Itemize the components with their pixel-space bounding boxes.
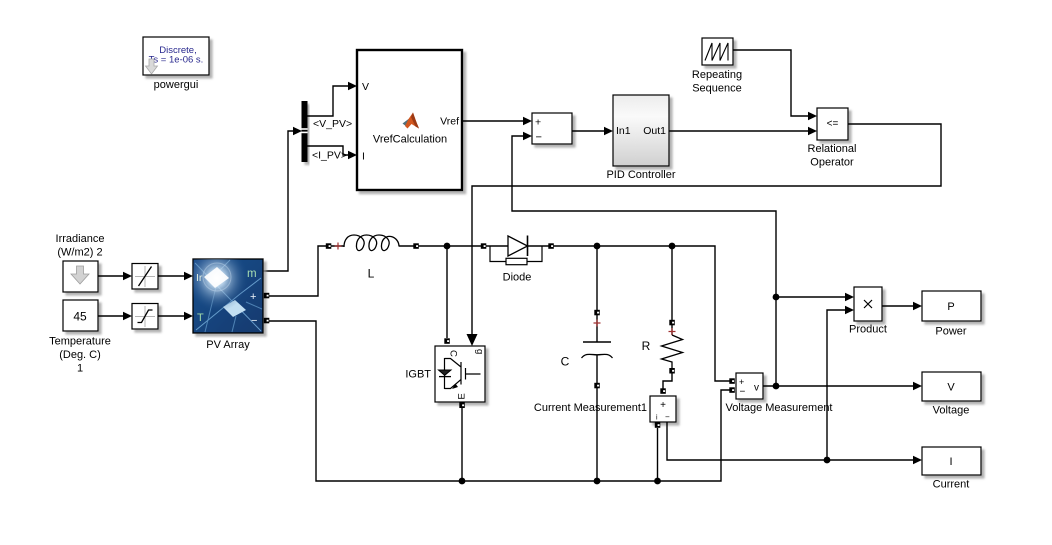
svg-text:(W/m2) 2: (W/m2) 2 bbox=[57, 247, 102, 259]
wire bus to I port, signal I_PV bbox=[308, 146, 349, 155]
wire Sum to PID bbox=[572, 130, 604, 132]
port IGBT C bbox=[444, 338, 450, 344]
svg-text:v: v bbox=[754, 383, 759, 394]
port diode cathode bbox=[548, 243, 554, 249]
port VM + bbox=[729, 378, 735, 384]
svg-text:45: 45 bbox=[73, 310, 87, 324]
svg-text:+: + bbox=[535, 117, 541, 129]
svg-text:PV Array: PV Array bbox=[206, 339, 250, 351]
port C top bbox=[594, 310, 600, 316]
port CM1 + bbox=[660, 388, 666, 394]
powergui block bbox=[143, 37, 209, 75]
svg-text:1: 1 bbox=[77, 363, 83, 375]
svg-text:Ts = 1e-06 s.: Ts = 1e-06 s. bbox=[149, 55, 204, 66]
svg-text:In1: In1 bbox=[616, 125, 631, 137]
svg-text:P: P bbox=[947, 301, 954, 313]
node junction rail-CM1 bbox=[654, 478, 661, 485]
wire irradiance to rate limiter bbox=[98, 275, 123, 277]
svg-text:Relational: Relational bbox=[808, 143, 857, 155]
port PV - bbox=[264, 318, 270, 324]
node junction rail-C bbox=[594, 478, 601, 485]
svg-text:Voltage Measurement: Voltage Measurement bbox=[725, 402, 832, 414]
svg-text:g: g bbox=[474, 349, 485, 354]
wire PV m to Bus Selector bbox=[263, 131, 293, 271]
repeating sequence block bbox=[702, 38, 733, 65]
wire 45 to saturation bbox=[98, 315, 123, 317]
svg-text:+: + bbox=[660, 400, 666, 411]
svg-text:<=: <= bbox=[827, 119, 839, 130]
svg-text:Repeating: Repeating bbox=[692, 69, 742, 81]
constant block 45 bbox=[63, 300, 98, 331]
svg-text:L: L bbox=[368, 267, 375, 281]
wire IGBT E to ground rail bbox=[461, 408, 463, 481]
node junction rail-R bbox=[669, 243, 676, 250]
PID Controller block bbox=[613, 95, 669, 166]
wire CM1 i output to Current display bbox=[667, 422, 913, 460]
PV Array block bbox=[193, 259, 263, 333]
svg-text:+: + bbox=[250, 291, 256, 303]
svg-text:Power: Power bbox=[935, 326, 967, 338]
svg-text:V: V bbox=[362, 81, 369, 93]
svg-text:Voltage: Voltage bbox=[933, 405, 970, 417]
node junction L-IGBT bbox=[444, 243, 451, 250]
wire bus to V port, signal V_PV bbox=[308, 86, 349, 116]
svg-text:powergui: powergui bbox=[154, 79, 199, 91]
wire voltage feedback to Sum - bbox=[512, 136, 776, 386]
node junction i-product bbox=[824, 457, 831, 464]
irradiance source block bbox=[63, 261, 98, 292]
svg-text:Ir: Ir bbox=[196, 272, 203, 284]
port L right bbox=[413, 243, 419, 249]
wire VM v output to Voltage display bbox=[763, 385, 913, 387]
svg-text:−: − bbox=[665, 413, 670, 422]
polarity mark R bbox=[669, 328, 676, 335]
polarity mark C bbox=[594, 320, 601, 327]
svg-text:Vref: Vref bbox=[440, 116, 459, 128]
current display block I bbox=[922, 447, 981, 475]
node junction rail-C bbox=[594, 243, 601, 250]
svg-text:VrefCalculation: VrefCalculation bbox=[373, 134, 447, 146]
product block bbox=[854, 287, 882, 321]
voltage measurement block bbox=[736, 373, 763, 399]
svg-text:Temperature: Temperature bbox=[49, 336, 111, 348]
svg-text:R: R bbox=[642, 339, 651, 353]
voltage display block V bbox=[922, 372, 981, 401]
wire PID Out1 to Relational Operator bbox=[669, 130, 808, 132]
polarity mark L bbox=[335, 243, 342, 250]
ground rail wire PV - to VM - bbox=[269, 321, 731, 481]
svg-text:I: I bbox=[949, 456, 952, 468]
svg-text:Irradiance: Irradiance bbox=[56, 233, 105, 245]
IGBT block Q1 bbox=[435, 346, 485, 402]
svg-text:Product: Product bbox=[849, 324, 887, 336]
sum block bbox=[532, 113, 572, 144]
capacitor C bbox=[582, 342, 613, 384]
svg-text:<V_PV>: <V_PV> bbox=[313, 118, 352, 130]
inductor L bbox=[344, 235, 399, 251]
svg-text:−: − bbox=[251, 315, 257, 327]
current measurement1 block bbox=[650, 396, 676, 422]
svg-text:−: − bbox=[536, 132, 542, 144]
svg-text:(Deg. C): (Deg. C) bbox=[59, 349, 101, 361]
subsystem U1 VrefCalculation bbox=[357, 50, 462, 190]
svg-text:Diode: Diode bbox=[503, 272, 532, 284]
svg-text:C: C bbox=[561, 355, 570, 369]
svg-text:Current: Current bbox=[933, 479, 970, 491]
svg-text:V: V bbox=[947, 382, 955, 394]
svg-text:C: C bbox=[448, 350, 459, 357]
wire resistor branch bbox=[671, 246, 673, 335]
wire capacitor branch bbox=[596, 246, 598, 342]
diode D1 bbox=[490, 236, 542, 265]
wire CM1 - to ground rail bbox=[657, 428, 659, 481]
svg-text:IGBT: IGBT bbox=[405, 369, 431, 381]
wire Relational Operator to IGBT gate bbox=[472, 124, 941, 334]
wire C bottom to ground rail bbox=[596, 388, 598, 481]
port PV + bbox=[264, 293, 270, 299]
wire Product to Power display bbox=[882, 305, 913, 307]
svg-text:Current Measurement1: Current Measurement1 bbox=[534, 402, 647, 414]
wire voltage to Product input 1 bbox=[776, 296, 845, 298]
svg-text:I: I bbox=[362, 151, 365, 163]
wire rate limiter to PV Ir bbox=[158, 275, 184, 277]
node junction voltage-product bbox=[773, 294, 780, 301]
port CM1 - bottom bbox=[655, 422, 661, 428]
svg-text:Out1: Out1 bbox=[643, 125, 666, 137]
wire diode cathode rail to VM + bbox=[528, 246, 731, 381]
svg-text:Operator: Operator bbox=[810, 157, 854, 169]
wire L to diode bbox=[399, 245, 508, 247]
svg-text:+: + bbox=[739, 377, 744, 387]
relational operator block bbox=[817, 108, 848, 140]
port C bottom bbox=[594, 383, 600, 389]
wire PV + to inductor bbox=[269, 246, 344, 296]
port IGBT E bbox=[459, 403, 465, 409]
svg-text:−: − bbox=[740, 387, 746, 398]
rate limiter block bbox=[132, 264, 158, 290]
svg-text:<I_PV>: <I_PV> bbox=[312, 150, 347, 162]
svg-text:T: T bbox=[197, 312, 204, 324]
node junction rail-IGBT E bbox=[459, 478, 466, 485]
saturation block bbox=[132, 304, 158, 330]
node junction VM out bbox=[773, 383, 780, 390]
wire junction to IGBT C bbox=[446, 246, 448, 338]
port VM - bbox=[729, 387, 735, 393]
svg-text:PID Controller: PID Controller bbox=[606, 169, 675, 181]
wire current to Product input 2 bbox=[827, 310, 845, 460]
port R bottom bbox=[669, 368, 675, 374]
svg-text:m: m bbox=[247, 268, 257, 280]
wire Vref to Sum bbox=[462, 120, 523, 122]
port diode anode bbox=[481, 243, 487, 249]
wire saturation to PV T bbox=[158, 315, 184, 317]
svg-text:E: E bbox=[457, 393, 468, 399]
port R top bbox=[669, 320, 675, 326]
port L left bbox=[326, 243, 332, 249]
bus selector bbox=[302, 101, 308, 162]
svg-text:Sequence: Sequence bbox=[692, 83, 742, 95]
wire Repeating Sequence to Relational Operator bbox=[733, 50, 808, 116]
resistor R bbox=[662, 335, 683, 368]
power display block P bbox=[922, 291, 981, 321]
wire R to Current Measurement1 bbox=[663, 374, 672, 391]
